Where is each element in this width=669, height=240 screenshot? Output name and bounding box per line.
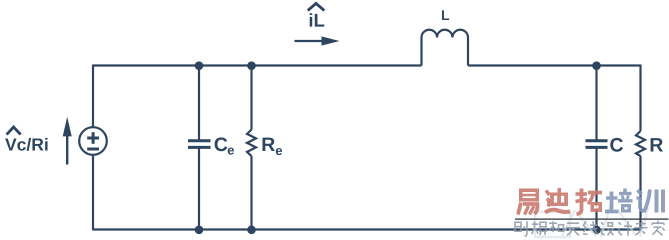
label Re sub — [276, 148, 282, 155]
node F bottom junction dot at C branch — [592, 226, 601, 235]
watermark char pei — [605, 189, 633, 213]
wire Ce branch upper — [198, 66, 200, 142]
wire bottom horizontal — [93, 228, 641, 230]
arrow for source direction — [66, 134, 68, 165]
wire left vertical lower — [92, 155, 94, 231]
watermark char di — [545, 188, 570, 213]
watermark char xun — [637, 190, 664, 213]
hat over Vc label — [7, 127, 21, 135]
voltage source minus sign — [87, 148, 99, 151]
label R — [651, 138, 663, 151]
label C — [610, 138, 623, 152]
hat over iL label — [308, 3, 325, 10]
watermark char yi — [518, 189, 539, 215]
slogan char jia — [652, 221, 665, 236]
slogan char he — [549, 221, 564, 232]
watermark ghost box — [535, 207, 648, 238]
wire right vertical lower — [639, 156, 641, 231]
slogan char ji — [619, 221, 633, 236]
voltage source U1 circle — [79, 127, 107, 155]
slogan char tian — [566, 223, 580, 235]
resistor Re zigzag — [247, 130, 256, 157]
inductor current arrow — [295, 40, 326, 42]
label Ce sub — [228, 148, 234, 155]
wire right vertical upper — [639, 65, 641, 132]
node D bottom junction dot at Ce — [195, 226, 204, 235]
label iL — [310, 13, 325, 26]
wire Re branch upper — [250, 66, 252, 130]
resistor R zigzag — [636, 131, 645, 156]
wire Ce branch lower — [198, 148, 200, 230]
node C top junction dot at C branch — [592, 61, 601, 70]
slogan char she2 — [601, 222, 614, 235]
node E bottom junction dot at Re — [247, 226, 256, 235]
node A top junction dot at Ce — [195, 61, 204, 70]
wire top horizontal left segment — [93, 64, 422, 66]
capacitor Ce plates — [188, 141, 211, 148]
slogan char zhuan — [635, 221, 648, 235]
capacitor C plates — [586, 141, 608, 148]
wire C branch lower — [595, 148, 597, 230]
node B top junction dot at Re — [247, 61, 256, 70]
label Vc/Ri — [5, 138, 47, 151]
voltage source plus sign — [87, 132, 99, 144]
wire left vertical upper — [92, 65, 94, 128]
label Re main — [263, 138, 275, 151]
watermark slogan text — [515, 221, 665, 237]
watermark underline — [515, 218, 669, 220]
wire Re branch lower — [250, 156, 252, 230]
wire top horizontal right segment — [468, 64, 641, 66]
watermark char tuo — [576, 189, 603, 215]
slogan char she — [515, 221, 527, 236]
inductor L coil — [422, 30, 469, 66]
label L — [442, 10, 449, 20]
slogan char xian — [583, 221, 598, 234]
label Ce main — [215, 137, 228, 151]
slogan char pin — [532, 221, 546, 235]
wire C branch upper — [595, 66, 597, 142]
